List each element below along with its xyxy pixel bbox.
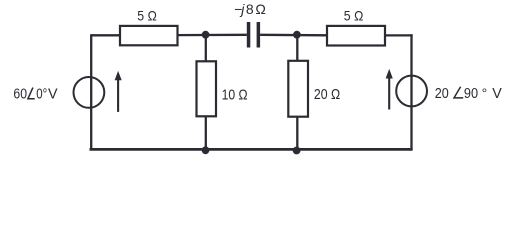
wire: 20Ω resistor to bottom rail xyxy=(296,117,298,150)
capacitor C1 right plate xyxy=(257,22,261,48)
wire: junction B down to 20Ω resistor xyxy=(296,35,298,61)
label: 20∠90° V (V2 value) xyxy=(435,85,502,102)
wire: left vertical branch (through source V1) xyxy=(90,34,92,150)
svg-text:90: 90 xyxy=(464,86,478,102)
node: junction C (bottom of 10Ω branch) xyxy=(202,146,210,154)
svg-text:0°: 0° xyxy=(36,87,47,103)
svg-text:8: 8 xyxy=(246,1,254,17)
svg-text:5 Ω: 5 Ω xyxy=(137,8,157,24)
wire: R1 to capacitor C1 left plate xyxy=(178,34,247,37)
svg-text:5 Ω: 5 Ω xyxy=(344,8,364,24)
wire: bottom rail xyxy=(90,148,413,151)
resistor R1 5Ω (top left, horizontal) xyxy=(120,26,178,45)
resistor R3 10Ω (left shunt, vertical) xyxy=(197,61,217,116)
node: junction D (bottom of 20Ω branch) xyxy=(293,147,301,155)
svg-text:20: 20 xyxy=(435,86,449,102)
wire: 10Ω resistor to bottom rail xyxy=(205,116,207,150)
wire: junction A down to 10Ω resistor xyxy=(205,35,207,62)
node: junction A (top of 10Ω branch) xyxy=(202,31,210,39)
svg-text:Ω: Ω xyxy=(255,1,265,17)
svg-text:V: V xyxy=(492,86,502,102)
node: junction B (top of 20Ω branch) xyxy=(293,31,301,39)
wire: R2 to top right corner xyxy=(385,34,413,36)
source V1 60∠0° V (left, circle symbol) xyxy=(74,77,105,108)
svg-text:60: 60 xyxy=(13,87,27,103)
wire: top rail, left corner to R1 xyxy=(91,34,120,36)
source V2 20∠90° V (right, circle symbol) xyxy=(396,76,427,107)
current arrow beside V2 (pointing up) xyxy=(386,69,393,110)
current arrow beside V1 (pointing up) xyxy=(115,71,122,112)
capacitor C1 left plate xyxy=(247,22,251,48)
svg-text:°: ° xyxy=(482,85,488,101)
wire: right vertical branch (through source V2) xyxy=(410,34,412,150)
resistor R4 20Ω (right shunt, vertical) xyxy=(288,61,308,117)
svg-text:V: V xyxy=(48,87,58,103)
svg-text:20 Ω: 20 Ω xyxy=(314,87,340,103)
svg-text:10 Ω: 10 Ω xyxy=(222,88,248,104)
wire: capacitor C1 right plate to R2 xyxy=(260,34,327,37)
resistor R2 5Ω (top right, horizontal) xyxy=(327,26,385,46)
label: 60∠0° V (V1 value) xyxy=(13,87,58,103)
